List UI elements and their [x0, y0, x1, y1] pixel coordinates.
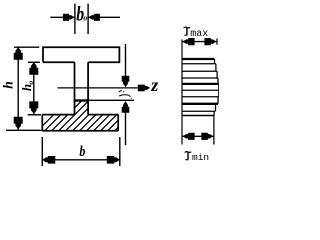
level line y1 (thick across web) [74, 99, 89, 101]
web [75, 62, 89, 114]
label tau min [185, 152, 192, 160]
svg-text:max: max [190, 29, 208, 40]
label tau max [184, 27, 191, 35]
tau min dimension arrows [183, 135, 214, 137]
tau diagram: left edge [181, 39, 183, 144]
tau diagram: right edge below (extension to bottom dim) [213, 116, 215, 145]
dimension h: bottom extension line [6, 129, 42, 131]
dimension b: extension lines [42, 137, 120, 166]
dimension h0: line with arrows [33, 62, 35, 115]
dimension h: top extension line [14, 46, 39, 48]
dimension h0: top extension line [28, 61, 40, 63]
top flange [43, 47, 119, 62]
svg-text:h: h [1, 81, 16, 89]
svg-text:o: o [83, 14, 87, 23]
dimension b: line with arrows [42, 159, 120, 161]
tau max dimension arrows [183, 41, 217, 43]
dimension b0: right arrow [88, 16, 120, 18]
svg-text:b: b [79, 143, 85, 160]
tau diagram horizontal lines (stepped parabola) [182, 59, 219, 116]
label h0 (rotated) [19, 81, 35, 92]
svg-text:z: z [150, 75, 158, 95]
right small dimension: lower arrow (up) [125, 111, 127, 145]
svg-text:o: o [26, 81, 35, 85]
bottom flange [42, 115, 118, 131]
right small dimension: upper arrow (down) [125, 44, 127, 78]
hatching of shaded area [28, 88, 164, 140]
tau diagram: right tick (top) [216, 38, 218, 44]
dimension b0: extension lines [75, 4, 88, 34]
dimension h: line with arrows [17, 47, 19, 130]
z axis arrowhead [138, 85, 151, 92]
level line y1 thin extension [89, 99, 134, 101]
z axis line [57, 87, 139, 89]
dimension h0: bottom extension line [28, 114, 41, 116]
label y1 (tiny squiggle near z axis) [119, 91, 132, 98]
dimension b0: left arrow [50, 16, 74, 18]
svg-text:min: min [192, 152, 209, 163]
